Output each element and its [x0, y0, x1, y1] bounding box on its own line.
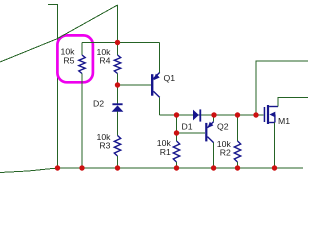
resistor R1	[173, 141, 179, 162]
node junction dot bus x=82	[79, 165, 84, 170]
diode D1 (pointing right)	[193, 109, 201, 121]
wire R4 bottom to base node	[117, 74, 119, 86]
svg-text:D2: D2	[93, 98, 104, 108]
wire ground bus y=168	[58, 167, 304, 169]
wire horizontal node y=42.5 (R5 top to Q1 collector branch)	[82, 42, 160, 44]
svg-text:R4: R4	[99, 55, 110, 65]
node junction dot bus x=274.5	[272, 165, 277, 170]
node junction dot R4 top	[115, 40, 120, 45]
node junction dot M1 gate	[253, 112, 258, 117]
resistor R5	[79, 55, 85, 74]
svg-text:R2: R2	[220, 147, 231, 157]
wire R1 bottom to bus	[176, 162, 178, 168]
node junction dot bus x=57.5	[55, 165, 60, 170]
diode D2 (pointing up)	[112, 103, 124, 111]
svg-text:R5: R5	[63, 55, 74, 65]
wire Q2 top terminal to y=115 node	[213, 115, 215, 122]
svg-text:M1: M1	[278, 116, 290, 126]
svg-text:R3: R3	[99, 141, 110, 151]
wire shallow diagonal bottom-left	[0, 168, 58, 173]
node junction dot bus x=176.5	[174, 165, 179, 170]
wire left vertical rail x=57.5 with top jog	[48, 5, 58, 169]
highlight magenta rounded box around R5	[57, 35, 93, 82]
svg-text:R1: R1	[160, 147, 171, 157]
node junction dot R2 top	[235, 112, 240, 117]
wire vertical x=237.5 from y=115 to R2	[237, 115, 239, 141]
resistor R4	[114, 55, 120, 74]
node junction dot D1 anode / R1 top	[174, 112, 179, 117]
node junction dot R4 bottom / Q1 base	[115, 82, 120, 87]
transistor Q1	[151, 72, 160, 97]
node junction dot bus x=117.5	[115, 165, 120, 170]
wire D2 anode to R3	[117, 112, 119, 136]
svg-text:Q1: Q1	[164, 73, 176, 83]
wire Q1 bottom terminal down to y=115 node	[159, 97, 161, 115]
wire R5 bottom to bus	[81, 74, 83, 169]
wire vertical x=176.5 from y=115 through Q2 base tap to R1	[176, 115, 178, 141]
mosfet M1	[264, 105, 278, 124]
node junction dot bus x=237.5	[235, 165, 240, 170]
wire R3 bottom to bus	[117, 156, 119, 168]
resistor R2	[234, 141, 240, 162]
transistor Q2	[205, 122, 213, 143]
svg-text:Q2: Q2	[217, 121, 229, 131]
svg-text:D1: D1	[182, 121, 193, 131]
wire upper-right corner feed to M1 gate (x=256)	[256, 61, 308, 115]
wire Q2 base wire y=133	[177, 132, 206, 134]
node junction dot D1 cathode / Q2 top	[211, 112, 216, 117]
wire node R4 bottom down to D2	[117, 85, 119, 103]
wire M1 drain up and right	[278, 98, 308, 107]
wire R4 top lead	[117, 43, 119, 56]
wire Q1 base wire y=85	[118, 84, 152, 86]
wire long diagonal top-left	[0, 5, 118, 62]
wire horizontal node y=115 (Q1 to M1 gate)	[160, 114, 264, 116]
wire vertical above R4 x=117.5	[117, 5, 119, 43]
node junction dot bus x=213.6	[211, 165, 216, 170]
wire R2 bottom to bus	[237, 162, 239, 168]
node junction dot Q2 base tap	[174, 130, 179, 135]
wire M1 source to bus	[274, 123, 276, 169]
wire Q1 top terminal to y=42.5 node	[159, 43, 161, 73]
resistor R3	[114, 136, 120, 157]
wire Q2 bottom terminal to bus	[213, 143, 215, 168]
wire R5 top lead	[81, 43, 83, 56]
